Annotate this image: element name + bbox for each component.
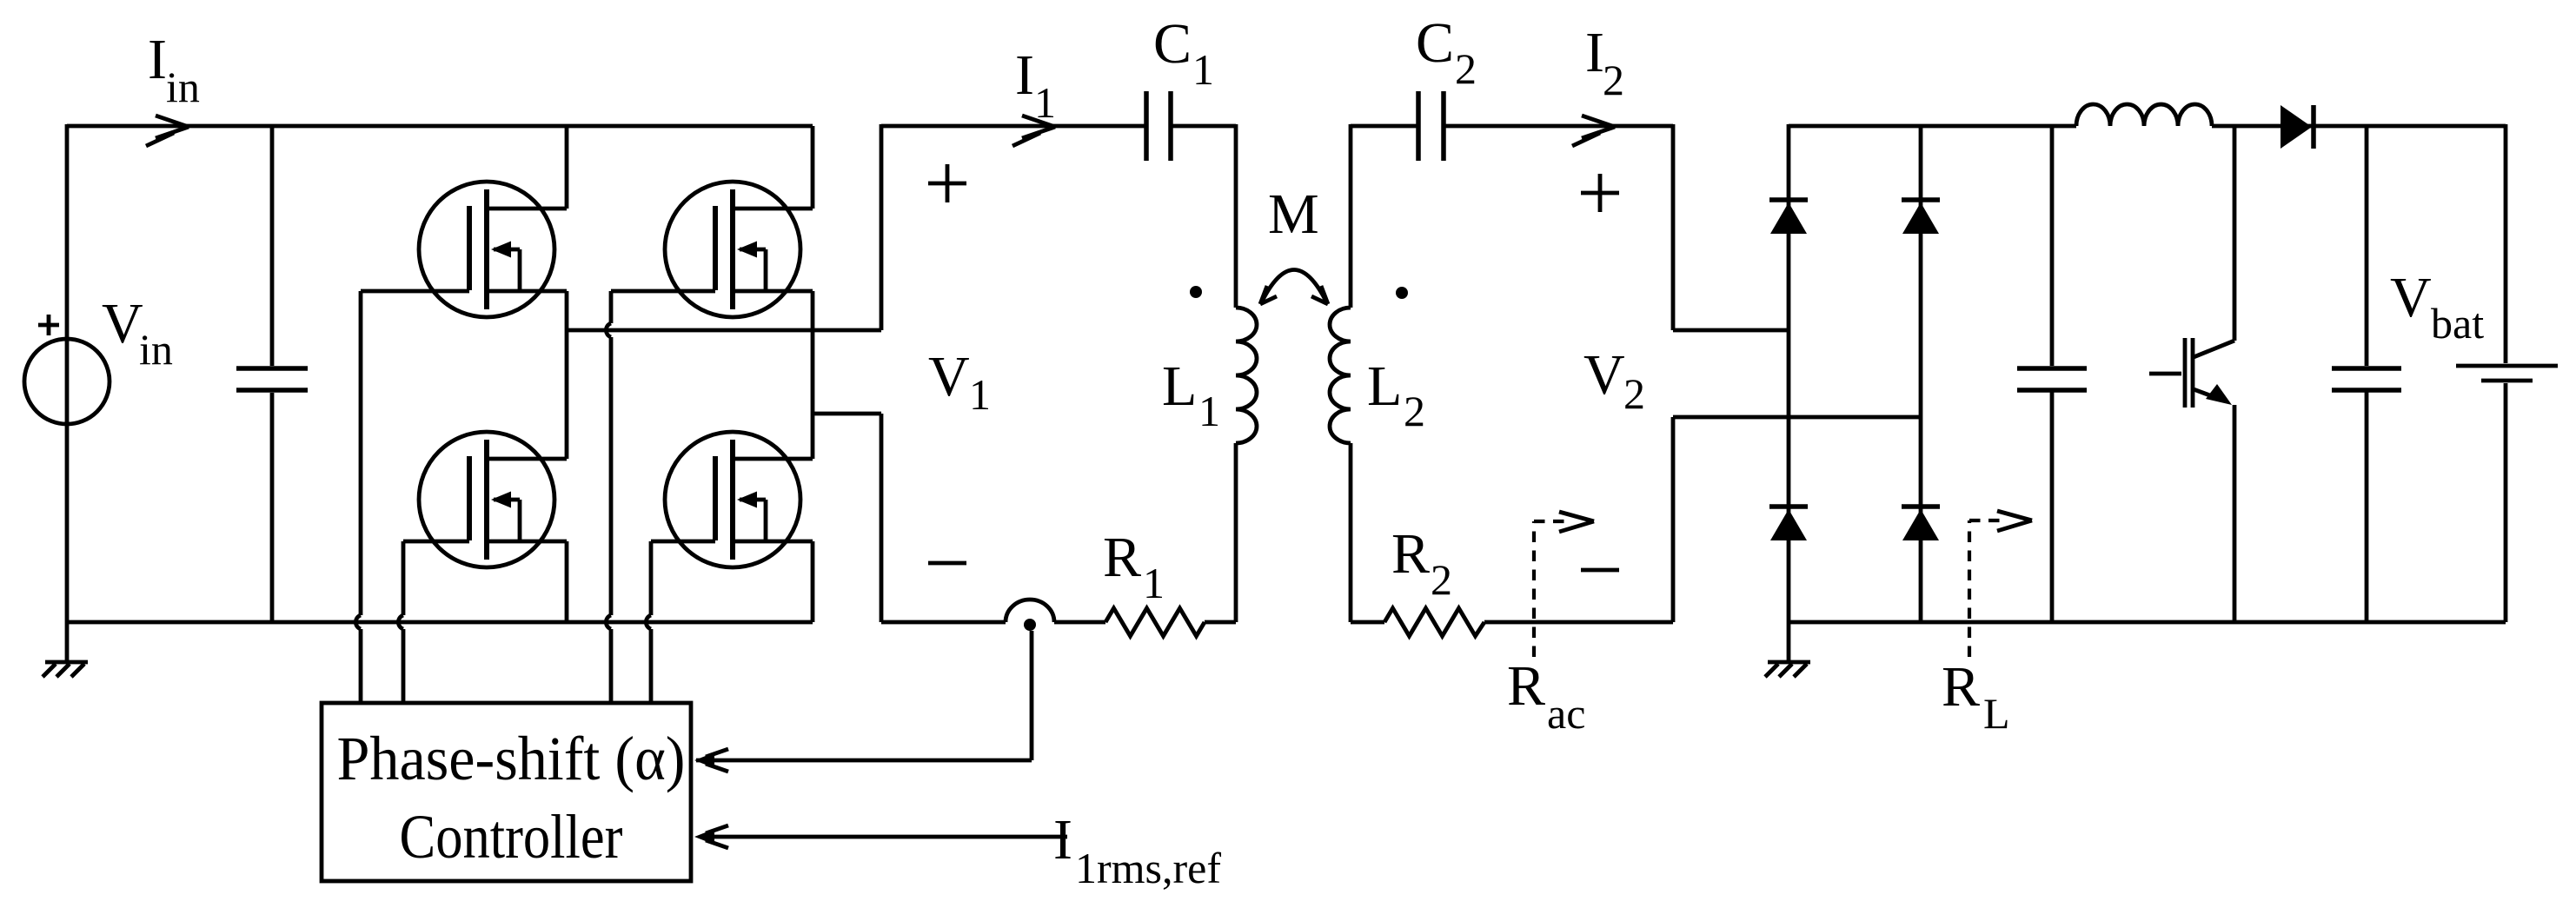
svg-text:Controller: Controller (400, 802, 623, 872)
node: I1 sense tap dot (1024, 619, 1036, 631)
diode D2 (top-right) (1902, 200, 1940, 234)
svg-text:L: L (1162, 355, 1197, 418)
wire: V1 left upper (880, 124, 884, 330)
resistor R1 (1105, 608, 1205, 636)
svg-text:bat: bat (2431, 299, 2484, 348)
svg-text:2: 2 (1404, 387, 1425, 435)
wire: left midpoint to V1+ (567, 328, 881, 333)
wire: input left vertical (65, 124, 70, 662)
wire: gate S3 to controller (398, 541, 469, 705)
controller box (322, 703, 691, 881)
wire: left leg drain to rail (565, 126, 569, 209)
dashed arrow R_ac (1534, 521, 1570, 657)
wire: rectifier top rail (1789, 124, 2076, 129)
svg-text:Phase-shift (α): Phase-shift (α) (337, 724, 686, 793)
svg-text:I: I (1015, 43, 1034, 107)
capacitor (input dc-link) (270, 126, 275, 622)
capacitor C1 (1146, 91, 1171, 161)
wire: secondary top (1351, 124, 1673, 129)
svg-text:L: L (1367, 355, 1402, 418)
svg-text:1: 1 (1192, 45, 1214, 94)
svg-text:V: V (2390, 266, 2432, 329)
svg-text:V: V (928, 345, 970, 408)
V1 polarity minus (928, 561, 966, 566)
ground (rectifier) (1765, 662, 1810, 677)
svg-text:M: M (1268, 182, 1319, 246)
wire: primary bottom (881, 600, 1236, 622)
wire: gate S2 to controller (606, 291, 715, 705)
wire: gate S4 to controller (646, 541, 715, 705)
svg-text:I: I (1585, 21, 1604, 84)
diode D4 (bottom-right) (1902, 507, 1940, 540)
wire: rectifier right leg (1919, 124, 1923, 622)
svg-text:2: 2 (1623, 369, 1645, 418)
diode (output, series) (2281, 105, 2314, 149)
wire: I1 sense to controller (696, 631, 1032, 760)
transistor (IGBT) (2149, 124, 2234, 622)
wire: input top rail (67, 124, 813, 129)
svg-text:1: 1 (1143, 559, 1165, 607)
svg-text:2: 2 (1455, 44, 1477, 93)
V1 polarity plus (928, 164, 966, 202)
arrow I_in (146, 116, 189, 146)
arrow into controller (I1 sense) (694, 752, 714, 768)
wire: left leg middle (565, 291, 569, 459)
ground (input) (43, 662, 88, 677)
svg-text:I: I (1053, 808, 1072, 872)
diode D3 (bottom-left) (1769, 507, 1808, 540)
inductor L1 (1236, 308, 1257, 443)
arrow I2 (1572, 116, 1615, 146)
svg-text:L: L (1983, 689, 2010, 738)
wire: input bottom rail (67, 620, 813, 625)
V2 polarity minus (1581, 568, 1619, 573)
wire: secondary left upper (1349, 124, 1353, 308)
capacitor (filter, after rectifier) (2050, 126, 2055, 622)
svg-text:1: 1 (969, 370, 991, 419)
wire: reference input I_1rms,ref (700, 835, 1067, 839)
svg-text:V: V (1583, 343, 1625, 407)
resistor R2 (1384, 608, 1484, 636)
wire: V2 right upper (1673, 124, 1789, 330)
wire: V2 right lower (1673, 417, 1921, 622)
svg-text:2: 2 (1603, 56, 1624, 104)
svg-text:R: R (1391, 522, 1430, 586)
battery V_bat (2504, 124, 2508, 622)
dot L2 polarity (1396, 287, 1408, 299)
source V_in (24, 339, 110, 424)
capacitor (output) (2365, 126, 2369, 622)
dot L1 polarity (1190, 286, 1202, 298)
svg-text:V: V (102, 292, 143, 355)
dashed arrow R_L (1969, 520, 2006, 657)
wire: left leg source to rail (565, 541, 569, 622)
svg-text:C: C (1153, 12, 1192, 76)
svg-text:R: R (1507, 654, 1545, 718)
inductor (output filter) (2076, 104, 2212, 126)
wire: right leg drain to rail (811, 126, 815, 209)
wire: rectifier bottom rail (1789, 620, 2506, 625)
coupling arrow M (1261, 270, 1327, 304)
wire: gate S1 to controller (355, 291, 469, 705)
V_in polarity plus (38, 315, 59, 335)
transistor S4 (bottom-right MOSFET) (665, 432, 813, 567)
svg-text:in: in (139, 325, 173, 374)
svg-text:ac: ac (1547, 689, 1585, 738)
transistor S2 (top-right MOSFET) (665, 182, 813, 317)
svg-text:1: 1 (1198, 387, 1220, 435)
wire: right leg middle (811, 291, 815, 459)
svg-text:R: R (1942, 655, 1980, 719)
V2 polarity plus (1581, 174, 1619, 212)
svg-text:C: C (1416, 11, 1454, 75)
wire: output top rail (2212, 124, 2506, 129)
wire: primary top (881, 124, 1236, 129)
diode D1 (top-left) (1769, 200, 1808, 234)
wire: right leg source to rail (811, 541, 815, 622)
wire: right midpoint to V1- (813, 412, 881, 416)
svg-text:1rms,ref: 1rms,ref (1075, 844, 1221, 892)
wire: primary right lower (1234, 443, 1238, 622)
svg-text:2: 2 (1431, 555, 1452, 604)
arrow I1 (1012, 116, 1055, 146)
capacitor C2 (1418, 91, 1444, 161)
svg-text:R: R (1103, 526, 1141, 589)
svg-text:in: in (166, 63, 200, 111)
svg-text:I: I (148, 28, 167, 91)
transistor S3 (bottom-left MOSFET) (419, 432, 567, 567)
wire: secondary left lower (1349, 443, 1353, 622)
wire: V1 left lower (880, 414, 884, 622)
transistor S1 (top-left MOSFET) (419, 182, 567, 317)
wire: secondary bottom (1351, 620, 1673, 625)
wire: rectifier left leg (1787, 124, 1791, 662)
inductor L2 (1330, 308, 1351, 443)
arrow into controller (reference) (694, 829, 714, 845)
wire: primary right upper (1234, 124, 1238, 308)
